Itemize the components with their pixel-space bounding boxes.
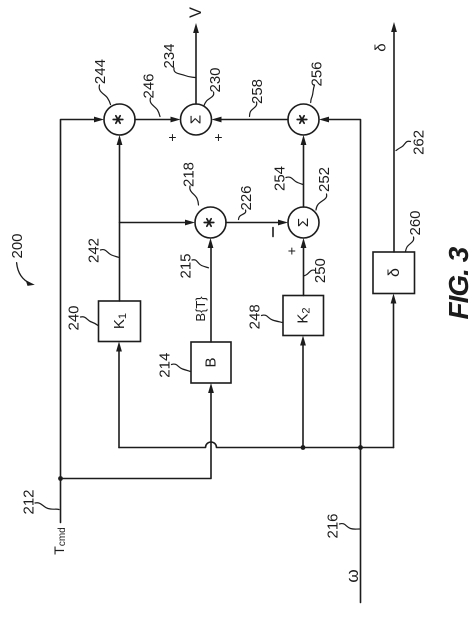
arrowhead into K1 bottom xyxy=(116,342,122,352)
arrowhead into multiplier 218 left xyxy=(185,220,195,226)
wire Tcmd to B block xyxy=(61,392,212,479)
svg-text:254: 254 xyxy=(272,166,289,191)
leader 258 xyxy=(250,102,257,117)
svg-text:K1: K1 xyxy=(111,313,129,329)
svg-text:+: + xyxy=(168,129,176,145)
leader for 200 (curved arrow) xyxy=(17,263,31,284)
wire K2 input riser xyxy=(302,344,304,448)
svg-text:262: 262 xyxy=(410,130,427,155)
svg-text:230: 230 xyxy=(207,67,224,92)
wire 242 K1 output to multiplier 244 xyxy=(119,144,121,302)
node junction omega riser xyxy=(358,445,363,450)
leader 262 xyxy=(396,141,411,150)
wire 250 K2 output to summer 252 xyxy=(303,247,305,296)
svg-text:252: 252 xyxy=(316,167,333,192)
leader 260 xyxy=(406,237,414,252)
svg-text:+: + xyxy=(214,129,222,145)
arrowhead into multiplier 218 bottom xyxy=(208,238,214,248)
arrowhead into K2 bottom xyxy=(300,336,306,346)
summer 230 circle xyxy=(181,104,212,135)
arrowhead into summer 252 left xyxy=(278,220,288,226)
svg-text:Tcmd: Tcmd xyxy=(51,527,68,554)
svg-text:Σ: Σ xyxy=(295,218,312,227)
svg-text:K2: K2 xyxy=(295,307,313,323)
arrowhead into delta block bottom xyxy=(391,294,397,304)
arrowhead into summer 230 right xyxy=(212,117,222,123)
svg-text:242: 242 xyxy=(85,238,102,263)
svg-text:δ: δ xyxy=(373,43,390,51)
svg-text:226: 226 xyxy=(238,185,255,210)
svg-text:212: 212 xyxy=(21,489,38,514)
svg-text:240: 240 xyxy=(66,305,83,330)
multiplier 256 circle xyxy=(288,104,319,135)
svg-text:FIG. 3: FIG. 3 xyxy=(443,246,474,319)
wire Tcmd main vertical with corner into multiplier 244 xyxy=(61,120,96,523)
asterisk of multiplier 218 xyxy=(204,219,214,226)
asterisk of multiplier 256 xyxy=(297,116,307,123)
leader 214 xyxy=(172,364,191,371)
svg-text:214: 214 xyxy=(157,353,174,378)
multiplier 218 circle xyxy=(195,207,226,238)
arrowhead into summer 252 bottom xyxy=(301,238,307,248)
arrowhead into multiplier 256 bottom xyxy=(301,135,307,145)
svg-text:216: 216 xyxy=(325,513,342,538)
leader 256 xyxy=(311,85,315,103)
svg-text:250: 250 xyxy=(312,258,329,283)
leader 230 xyxy=(204,92,214,106)
svg-text:248: 248 xyxy=(247,304,264,329)
wire 234 summer 230 output to V xyxy=(195,32,197,105)
multiplier 244 circle xyxy=(104,104,135,135)
leader 248 xyxy=(262,315,283,322)
wire 246 multiplier 244 to summer 230 xyxy=(135,119,172,121)
svg-text:258: 258 xyxy=(249,79,266,104)
arrowhead output delta xyxy=(391,22,397,32)
wire 262 delta output xyxy=(393,31,395,253)
arrowhead into summer 230 left xyxy=(171,117,181,123)
wire 254 summer 252 to multiplier 256 xyxy=(303,144,305,208)
minus sign at summer 252 xyxy=(272,228,274,237)
wire delta block input riser xyxy=(393,302,395,448)
svg-text:215: 215 xyxy=(178,253,195,278)
leader 215 xyxy=(192,260,209,268)
wire 215 B output to multiplier 218 xyxy=(210,247,212,343)
svg-text:V: V xyxy=(187,7,205,18)
leader 246 xyxy=(150,98,160,117)
arrowhead into multiplier 244 left xyxy=(94,117,104,123)
leader 250 xyxy=(305,270,316,276)
block K2 248 xyxy=(283,296,324,336)
svg-text:244: 244 xyxy=(92,59,109,84)
block K1 240 xyxy=(99,301,141,342)
leader 212 xyxy=(35,503,59,510)
wire 258 multiplier 256 to summer 230 xyxy=(220,119,288,121)
leader 234 xyxy=(174,68,195,78)
svg-text:δ: δ xyxy=(386,268,403,277)
arrowhead into multiplier 244 bottom xyxy=(117,135,123,145)
svg-text:B{T}: B{T} xyxy=(193,296,208,322)
leader 244 xyxy=(99,85,110,105)
svg-text:260: 260 xyxy=(407,210,424,235)
wire K1 input riser xyxy=(118,350,120,448)
leader 240 xyxy=(81,317,99,326)
svg-text:ω: ω xyxy=(343,569,362,582)
block delta 260 xyxy=(373,252,415,294)
wire omega main xyxy=(328,120,361,603)
svg-text:218: 218 xyxy=(181,162,198,187)
leader 218 xyxy=(190,186,199,205)
leader 242 xyxy=(101,250,119,258)
summer 252 circle xyxy=(288,207,319,238)
block B 214 xyxy=(191,342,231,383)
leader 252 xyxy=(316,194,327,210)
svg-text:256: 256 xyxy=(309,61,326,86)
asterisk of multiplier 244 xyxy=(113,116,123,123)
node junction Tcmd branch xyxy=(58,476,63,481)
wire lower horizontal bus with hop over B input xyxy=(119,442,394,447)
arrowhead into B block bottom xyxy=(208,383,214,393)
svg-text:B: B xyxy=(203,357,220,367)
svg-text:Σ: Σ xyxy=(188,115,205,124)
svg-text:200: 200 xyxy=(9,233,26,258)
svg-text:234: 234 xyxy=(161,43,178,68)
svg-text:+: + xyxy=(288,243,296,259)
arrowhead output V xyxy=(193,23,199,33)
wire 226 multiplier 218 to summer 252 xyxy=(226,222,280,224)
wire branch to multiplier 218 xyxy=(120,222,187,224)
arrowhead into multiplier 256 right xyxy=(319,117,329,123)
node junction K2 riser xyxy=(301,445,306,450)
leader 226 xyxy=(239,210,246,220)
leader 254 xyxy=(286,177,303,184)
svg-text:246: 246 xyxy=(141,73,158,98)
leader 216 xyxy=(340,524,360,530)
